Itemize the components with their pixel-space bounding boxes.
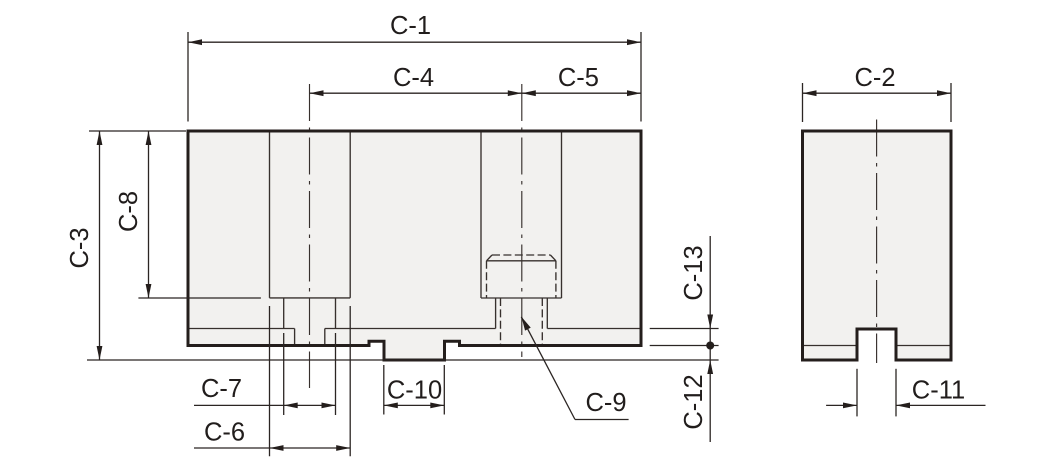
side view bottom face line left (803, 345, 858, 347)
svg-text:C-6: C-6 (204, 418, 245, 446)
bolt shank visible left (495, 298, 497, 329)
dimension C-7 (194, 333, 336, 415)
bolt shank visible right (546, 298, 548, 329)
step line right segment (547, 328, 641, 330)
svg-text:C-7: C-7 (201, 375, 242, 403)
bolt head right chamfer (550, 255, 556, 261)
svg-text:C-12: C-12 (680, 374, 708, 429)
dimension C-5 (522, 64, 641, 96)
step line left segment (188, 328, 295, 330)
front view outline (188, 131, 641, 360)
dimension C-1 (188, 12, 641, 121)
dimension C-10 (384, 365, 445, 415)
svg-text:C-3: C-3 (66, 227, 94, 268)
svg-text:C-13: C-13 (680, 245, 708, 300)
dimension C-3 (66, 131, 719, 360)
bottom notch right wall (324, 329, 326, 346)
side view outline (803, 131, 952, 360)
dimension C-11 (826, 369, 985, 417)
bolt head shoulder line (487, 260, 556, 262)
svg-text:C-2: C-2 (854, 64, 895, 92)
svg-text:C-9: C-9 (585, 389, 626, 417)
svg-text:C-11: C-11 (912, 376, 965, 404)
dimension C-13 (650, 236, 719, 442)
svg-text:C-10: C-10 (387, 376, 442, 404)
leader C-9 (521, 317, 628, 420)
side view body fill (803, 131, 952, 360)
bolt head hidden right edge (555, 261, 557, 298)
bolt head hidden left edge (486, 261, 488, 298)
svg-text:C-4: C-4 (393, 64, 434, 92)
front view body fill (188, 131, 641, 360)
side view centerline (876, 120, 878, 364)
bolt shank hidden right (541, 298, 543, 346)
counterbore left line (480, 131, 482, 298)
step line middle segment (325, 328, 496, 330)
bolt head left chamfer (487, 255, 493, 261)
bolt head hidden top edge (492, 254, 550, 256)
left slot centerline (309, 84, 311, 388)
wide slot bottom line (270, 297, 351, 299)
dimension C-8 (115, 131, 261, 298)
wide slot left line (269, 131, 271, 298)
svg-text:C-1: C-1 (390, 12, 431, 40)
wide slot right line (349, 131, 351, 298)
narrow slot left line (283, 298, 285, 329)
dimension C-4 (310, 64, 522, 96)
bolt shank hidden left (500, 298, 502, 346)
counterbore bottom line (481, 297, 562, 299)
svg-text:C-8: C-8 (115, 191, 143, 232)
dimension C-6 (194, 306, 350, 456)
narrow slot right line (335, 298, 337, 329)
counterbore right line (561, 131, 563, 298)
bolt centerline (521, 84, 523, 357)
bottom notch left wall (294, 329, 296, 346)
side view bottom face line right (896, 345, 951, 347)
dimension C-2 (803, 64, 952, 122)
dimension C-12 (680, 360, 713, 430)
svg-text:C-5: C-5 (558, 64, 599, 92)
